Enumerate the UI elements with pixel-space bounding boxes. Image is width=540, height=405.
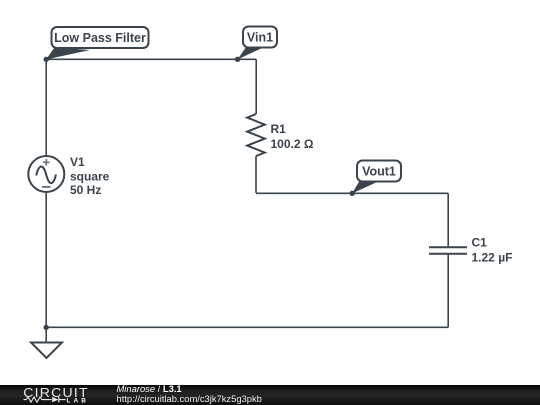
svg-text:http://circuitlab.com/c3jk7kz5: http://circuitlab.com/c3jk7kz5g3pkb: [117, 393, 262, 404]
svg-text:R1: R1: [271, 122, 287, 136]
ground: [31, 327, 62, 358]
svg-text:LAB: LAB: [67, 398, 90, 405]
svg-text:Low Pass Filter: Low Pass Filter: [54, 31, 146, 45]
CircuitLab logo resistor-diode glyph: [24, 397, 66, 403]
label C1 value: [472, 236, 513, 265]
svg-text:50 Hz: 50 Hz: [70, 183, 101, 197]
wire vertical from C1 bottom plate to bottom rail: [447, 255, 449, 328]
wire bottom horizontal rail: [46, 326, 448, 328]
resistor R1: [247, 114, 265, 156]
net label Low Pass Filter: [46, 27, 149, 60]
capacitor C1: [429, 247, 467, 254]
wire mid horizontal from R1 branch to C1 branch: [256, 192, 448, 194]
svg-text:V1: V1: [70, 155, 85, 169]
svg-text:C1: C1: [472, 236, 488, 250]
wire vertical from R1 bottom to mid corner: [255, 156, 257, 193]
node Vin1 junction dot: [235, 57, 240, 62]
label R1 value: [271, 122, 314, 151]
node ground junction dot: [44, 325, 49, 330]
wire vertical from Vin corner down to R1 top: [255, 59, 257, 114]
voltage source V1: [28, 156, 64, 192]
wire left vertical from V1 bottom to ground node: [45, 192, 47, 327]
wire vertical from mid corner down to C1 top plate: [447, 193, 449, 246]
svg-text:1.22 µF: 1.22 µF: [472, 251, 513, 265]
svg-text:Vin1: Vin1: [247, 31, 273, 45]
node Vout1 junction dot: [350, 191, 355, 196]
node A junction dot: [44, 57, 49, 62]
wire left vertical from node A to V1 top: [45, 59, 47, 156]
svg-text:Vout1: Vout1: [362, 165, 396, 179]
svg-text:100.2 Ω: 100.2 Ω: [271, 137, 314, 151]
net label Vin1: [238, 27, 278, 60]
label V1 value: [70, 155, 110, 197]
wire top horizontal from node A to resistor branch: [46, 58, 256, 60]
footer bar: [0, 385, 540, 405]
svg-text:square: square: [70, 170, 110, 184]
net label Vout1: [352, 161, 401, 194]
